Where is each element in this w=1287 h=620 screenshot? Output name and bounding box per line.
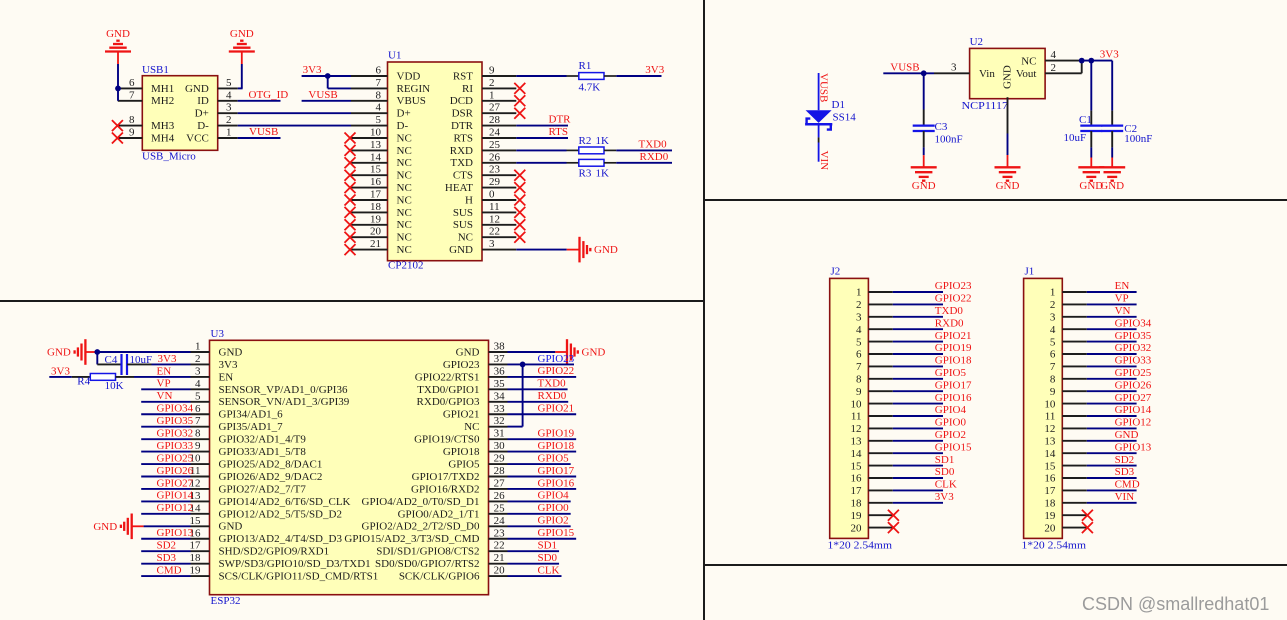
svg-text:2: 2 — [1050, 299, 1056, 311]
wire net GPIO14 to U3 pin 13 — [141, 500, 190, 502]
svg-text:DTR: DTR — [549, 114, 572, 126]
svg-text:8: 8 — [195, 428, 201, 440]
USB1 pin 7 MH2 — [118, 100, 143, 102]
svg-text:1: 1 — [856, 287, 862, 299]
svg-text:TXD0/GPIO1: TXD0/GPIO1 — [417, 384, 479, 396]
J1 pin 18 — [1062, 502, 1087, 504]
wire R4 to U3 pin3 — [134, 376, 191, 378]
wire net GPIO26 to U3 pin 11 — [141, 476, 190, 478]
USB1 pin 9 MH4 — [118, 137, 143, 139]
U1 pin 9 RST — [482, 75, 516, 77]
wire net GPIO15 from U3 pin 23 — [508, 538, 577, 540]
svg-text:R4: R4 — [77, 376, 90, 388]
svg-text:GND: GND — [219, 346, 243, 358]
U2 GND pin stub down — [1007, 97, 1009, 133]
svg-text:VUSB: VUSB — [890, 62, 919, 74]
svg-text:6: 6 — [129, 77, 135, 89]
U1 pin 14 NC — [351, 162, 388, 164]
J1 pin 4 — [1062, 328, 1087, 330]
wire net GPIO23 — [508, 363, 575, 365]
svg-text:MH3: MH3 — [151, 120, 175, 132]
wire VUSB to U2 Vin — [883, 72, 934, 74]
svg-text:SHD/SD2/GPIO9/RXD1: SHD/SD2/GPIO9/RXD1 — [219, 546, 330, 558]
wire net GPIO18 from J2 pin 7 — [893, 365, 943, 367]
svg-text:4.7K: 4.7K — [579, 82, 601, 94]
svg-text:1*20 2.54mm: 1*20 2.54mm — [828, 540, 893, 552]
J1 pin 11 — [1062, 415, 1087, 417]
U1 pin 25 RXD — [482, 149, 516, 151]
svg-text:21: 21 — [370, 238, 381, 250]
svg-text:GND: GND — [449, 244, 473, 256]
svg-text:GPIO33: GPIO33 — [157, 440, 194, 452]
resistor R1 — [567, 75, 579, 77]
wire C4 to U3 pin2 — [127, 363, 152, 365]
U3 pin 25 GPIO0/AD2_1/T1 — [489, 513, 508, 515]
wire net VP from J1 pin 2 — [1087, 303, 1137, 305]
wire net GPIO26 from J1 pin 9 — [1087, 390, 1137, 392]
no-connect X on U1 right pin 2 — [514, 83, 525, 94]
svg-text:SENSOR_VP/AD1_0/GPI36: SENSOR_VP/AD1_0/GPI36 — [219, 384, 348, 396]
wire down to C2 — [1111, 61, 1113, 111]
svg-text:GPIO16: GPIO16 — [538, 477, 575, 489]
wire net GPIO2 from J2 pin 13 — [893, 440, 943, 442]
J1 pin 14 — [1062, 452, 1087, 454]
J2 pin 11 — [868, 415, 892, 417]
U3 pin 27 GPIO16/RXD2 — [489, 488, 508, 490]
svg-text:GPIO23: GPIO23 — [935, 280, 972, 292]
U1 pin 27 DSR — [482, 112, 516, 114]
wire ground to U3 pin1 — [97, 351, 190, 353]
wire net CMD to U3 pin 19 — [141, 575, 190, 577]
svg-text:GPIO0/AD2_1/T1: GPIO0/AD2_1/T1 — [398, 508, 480, 520]
svg-text:20: 20 — [1044, 522, 1056, 534]
svg-text:16: 16 — [1044, 473, 1056, 485]
USB1 pin 6 MH1 — [118, 87, 143, 89]
wire net GPIO16 from J2 pin 10 — [893, 403, 943, 405]
wire net VN to U3 pin 5 — [141, 401, 190, 403]
svg-text:GPIO26: GPIO26 — [1115, 379, 1152, 391]
svg-text:VBUS: VBUS — [397, 95, 426, 107]
svg-text:2: 2 — [195, 353, 201, 365]
wire net GPIO17 from J2 pin 9 — [893, 390, 943, 392]
wire ground to U3 pin15 — [144, 525, 191, 527]
svg-text:17: 17 — [370, 189, 382, 201]
svg-text:GPIO0: GPIO0 — [935, 417, 967, 429]
wire net GPIO4 from J2 pin 11 — [893, 415, 943, 417]
svg-text:3V3: 3V3 — [645, 64, 664, 76]
wire VUSB to VBUS — [302, 100, 351, 102]
svg-text:5: 5 — [376, 114, 382, 126]
wire net GPIO22 from J2 pin 2 — [893, 303, 943, 305]
wire C3 to ground — [923, 131, 925, 147]
J2 pin 9 — [868, 390, 892, 392]
wire junction to REGIN — [327, 76, 329, 88]
svg-text:GPIO19: GPIO19 — [935, 342, 972, 354]
svg-text:10: 10 — [370, 127, 382, 139]
wire net SD1 from U3 pin 22 — [508, 550, 560, 552]
svg-text:6: 6 — [1050, 349, 1056, 361]
svg-text:GND: GND — [1002, 65, 1014, 89]
svg-text:GPIO12/AD2_5/T5/SD_D2: GPIO12/AD2_5/T5/SD_D2 — [219, 508, 342, 520]
U3 pin 21 SD0/SD0/GPIO7/RTS2 — [489, 563, 508, 565]
no-connect X on U1 left pin 20 — [345, 232, 356, 243]
svg-text:18: 18 — [190, 552, 202, 564]
svg-text:17: 17 — [190, 540, 202, 552]
svg-text:GPIO17: GPIO17 — [538, 465, 575, 477]
svg-text:20: 20 — [370, 226, 382, 238]
USB1 pin 4 ID — [218, 100, 238, 102]
svg-text:GPIO16: GPIO16 — [935, 392, 972, 404]
svg-text:EN: EN — [1115, 280, 1130, 292]
U1 pin 11 SUS — [482, 211, 516, 213]
wire pin5 to GND2 — [238, 87, 243, 89]
wire U2 GND to ground — [1007, 134, 1009, 156]
wire red stub to ground — [567, 249, 580, 251]
svg-text:6: 6 — [195, 403, 201, 415]
wire net CLK from U3 pin 20 — [508, 575, 562, 577]
svg-text:NC: NC — [397, 219, 412, 231]
svg-text:GPIO13: GPIO13 — [1115, 441, 1152, 453]
ground GND under U2 — [995, 166, 1021, 168]
svg-text:12: 12 — [851, 423, 862, 435]
wire 3V3 to VDD — [302, 75, 351, 77]
svg-text:32: 32 — [494, 415, 505, 427]
U3 pin 24 GPIO2/AD2_2/T2/SD_D0 — [489, 525, 508, 527]
svg-text:GPIO18: GPIO18 — [935, 355, 972, 367]
svg-text:1: 1 — [226, 127, 232, 139]
svg-text:11: 11 — [1045, 411, 1056, 423]
svg-text:GPIO14/AD2_6/T6/SD_CLK: GPIO14/AD2_6/T6/SD_CLK — [219, 496, 351, 508]
svg-text:GND: GND — [106, 28, 130, 40]
svg-text:29: 29 — [489, 176, 501, 188]
svg-text:C1: C1 — [1079, 114, 1092, 126]
svg-text:GND: GND — [582, 347, 606, 359]
svg-text:19: 19 — [851, 510, 863, 522]
J1 pin 3 — [1062, 316, 1087, 318]
svg-text:2: 2 — [489, 77, 495, 89]
svg-text:GPIO4: GPIO4 — [935, 404, 967, 416]
capacitor C4 — [120, 354, 122, 375]
svg-text:GPIO23: GPIO23 — [443, 359, 480, 371]
svg-text:SD3: SD3 — [157, 552, 177, 564]
svg-text:9: 9 — [856, 386, 862, 398]
svg-text:GPIO14: GPIO14 — [157, 490, 194, 502]
svg-text:REGIN: REGIN — [397, 83, 431, 95]
svg-text:7: 7 — [1050, 361, 1056, 373]
ground GND under C2 — [1099, 166, 1125, 168]
svg-text:SD0: SD0 — [538, 552, 558, 564]
wire net CMD from J1 pin 17 — [1087, 489, 1137, 491]
svg-text:DSR: DSR — [452, 108, 474, 120]
svg-text:9: 9 — [489, 65, 495, 77]
wire junction down to pin32 — [522, 364, 524, 426]
svg-text:8: 8 — [1050, 374, 1056, 386]
svg-text:VUSB: VUSB — [818, 73, 830, 102]
no-connect X on U1 left pin 18 — [345, 207, 356, 218]
wire net GPIO33 from J1 pin 7 — [1087, 365, 1137, 367]
U1 pin 12 SUS — [482, 224, 516, 226]
svg-text:4: 4 — [1050, 324, 1056, 336]
U3 pin 10 GPIO25/AD2_8/DAC1 — [191, 463, 210, 465]
wire net GPIO12 to U3 pin 14 — [141, 513, 190, 515]
svg-text:NC: NC — [397, 132, 412, 144]
svg-text:GPIO18: GPIO18 — [538, 440, 575, 452]
no-connect X on U1 left pin 19 — [345, 219, 356, 230]
svg-text:NC: NC — [397, 207, 412, 219]
svg-text:SS14: SS14 — [833, 112, 857, 124]
no-connect X on J1 pin 19 — [1082, 510, 1093, 521]
wire net TXD0 from J2 pin 3 — [893, 316, 943, 318]
svg-text:NC: NC — [397, 170, 412, 182]
J1 pin 6 — [1062, 353, 1087, 355]
wire net CLK from J2 pin 17 — [893, 489, 943, 491]
svg-text:5: 5 — [1050, 336, 1056, 348]
junction at C1 tap — [1088, 58, 1094, 64]
wire net GPIO12 from J1 pin 12 — [1087, 427, 1137, 429]
svg-text:7: 7 — [129, 89, 135, 101]
J1 pin 1 — [1062, 291, 1087, 293]
U1 pin 16 NC — [351, 187, 388, 189]
J1 pin 15 — [1062, 465, 1087, 467]
U3 pin 4 SENSOR_VP/AD1_0/GPI36 — [191, 388, 210, 390]
svg-text:GND: GND — [1100, 180, 1124, 192]
svg-text:GPIO21: GPIO21 — [443, 409, 480, 421]
svg-text:J1: J1 — [1025, 266, 1035, 278]
wire R1 to 3V3 — [616, 75, 661, 77]
svg-text:RXD0: RXD0 — [935, 317, 964, 329]
U3 pin 37 GPIO23 — [489, 363, 508, 365]
svg-text:0: 0 — [489, 189, 495, 201]
svg-text:SUS: SUS — [453, 219, 473, 231]
sheet border horizontal right upper — [704, 199, 1287, 201]
svg-text:NC: NC — [397, 194, 412, 206]
wire R3 to RXD0 — [616, 162, 672, 164]
J1 pin 20 — [1062, 527, 1087, 529]
svg-text:GPIO17: GPIO17 — [935, 379, 972, 391]
wire net SD3 from J1 pin 16 — [1087, 477, 1137, 479]
J2 pin 14 — [868, 452, 892, 454]
svg-text:25: 25 — [494, 502, 506, 514]
svg-text:Vin: Vin — [979, 68, 995, 80]
USB1 pin 2 D- — [218, 125, 238, 127]
wire net VIN from J1 pin 18 — [1087, 502, 1137, 504]
svg-text:U2: U2 — [970, 36, 983, 48]
wire net GPIO21 from U3 pin 33 — [508, 413, 577, 415]
svg-text:1: 1 — [195, 341, 201, 353]
svg-text:GPIO27: GPIO27 — [1115, 392, 1152, 404]
svg-text:GPIO25: GPIO25 — [157, 452, 194, 464]
sheet border vertical divider — [703, 0, 705, 620]
no-connect X on U1 left pin 14 — [345, 157, 356, 168]
svg-text:TXD0: TXD0 — [538, 378, 567, 390]
svg-text:GND: GND — [93, 521, 117, 533]
J2 pin 5 — [868, 341, 892, 343]
svg-text:GPIO13/AD2_4/T4/SD_D3: GPIO13/AD2_4/T4/SD_D3 — [219, 533, 343, 545]
svg-text:31: 31 — [494, 428, 505, 440]
wire RXD to R2 — [516, 149, 566, 151]
U1 pin 2 RI — [482, 87, 516, 89]
svg-text:17: 17 — [851, 485, 863, 497]
J2 pin 18 — [868, 502, 892, 504]
svg-text:GPIO19/CTS0: GPIO19/CTS0 — [414, 434, 480, 446]
svg-text:RXD0/GPIO3: RXD0/GPIO3 — [417, 396, 480, 408]
U3 pin 28 GPIO17/TXD2 — [489, 476, 508, 478]
svg-text:20: 20 — [851, 522, 863, 534]
svg-text:USB_Micro: USB_Micro — [142, 151, 196, 163]
wire red stub pin15 — [132, 525, 144, 527]
junction at pin6 — [115, 86, 121, 92]
svg-text:26: 26 — [489, 151, 501, 163]
svg-text:GPIO22: GPIO22 — [538, 365, 575, 377]
svg-text:VIN: VIN — [818, 151, 830, 171]
svg-text:GND: GND — [219, 521, 243, 533]
svg-text:GPIO32: GPIO32 — [1115, 342, 1152, 354]
svg-text:3: 3 — [1050, 312, 1056, 324]
svg-text:GPIO32/AD1_4/T9: GPIO32/AD1_4/T9 — [219, 434, 307, 446]
U1 pin 15 NC — [351, 174, 388, 176]
J2 pin 12 — [868, 427, 892, 429]
svg-text:CP2102: CP2102 — [388, 260, 423, 272]
U1 pin 8 VBUS — [351, 100, 388, 102]
svg-text:15: 15 — [851, 460, 863, 472]
svg-text:SD3: SD3 — [1115, 466, 1135, 478]
svg-text:NC: NC — [397, 182, 412, 194]
svg-text:4: 4 — [195, 378, 201, 390]
svg-text:3V3: 3V3 — [51, 366, 70, 378]
svg-text:1*20 2.54mm: 1*20 2.54mm — [1022, 540, 1087, 552]
J1 pin 9 — [1062, 390, 1087, 392]
no-connect X on U1 right pin 0 — [514, 195, 525, 206]
wire net GPIO0 from J2 pin 12 — [893, 427, 943, 429]
svg-text:GPIO21: GPIO21 — [538, 403, 575, 415]
wire net VN from J1 pin 3 — [1087, 316, 1137, 318]
J1 pin 2 — [1062, 303, 1087, 305]
no-connect X on J2 pin 20 — [888, 522, 899, 533]
ground GND under C1 — [1078, 166, 1104, 168]
svg-text:GND: GND — [996, 180, 1020, 192]
svg-text:VP: VP — [1115, 293, 1129, 305]
svg-text:9: 9 — [195, 440, 201, 452]
svg-text:18: 18 — [851, 498, 863, 510]
U1 pin 1 DCD — [482, 100, 516, 102]
U1 pin 28 DTR — [482, 125, 516, 127]
svg-text:11: 11 — [851, 411, 862, 423]
svg-text:NC: NC — [397, 145, 412, 157]
U3 pin 1 GND — [191, 351, 210, 353]
svg-text:GPIO4: GPIO4 — [538, 490, 570, 502]
U3 pin 34 RXD0/GPIO3 — [489, 401, 508, 403]
svg-text:VDD: VDD — [397, 70, 421, 82]
wire junction down to pin7 — [117, 88, 119, 100]
svg-text:GPIO13: GPIO13 — [157, 527, 194, 539]
svg-text:RXD: RXD — [450, 145, 473, 157]
wire net SD2 from J1 pin 15 — [1087, 465, 1137, 467]
no-connect X on U1 left pin 21 — [345, 244, 356, 255]
svg-text:13: 13 — [851, 436, 863, 448]
svg-text:R2: R2 — [579, 135, 592, 147]
junction at pin4 row — [1079, 58, 1085, 64]
svg-text:GPIO33/AD1_5/T8: GPIO33/AD1_5/T8 — [219, 446, 307, 458]
svg-text:3: 3 — [226, 102, 232, 114]
svg-text:9: 9 — [1050, 386, 1056, 398]
U1 pin 10 NC — [351, 137, 388, 139]
wire junction down to C4 row — [96, 352, 98, 364]
U2 pin 4 NC — [1045, 60, 1082, 62]
resistor R3 — [567, 162, 579, 164]
svg-text:6: 6 — [376, 65, 382, 77]
svg-text:18: 18 — [1044, 498, 1056, 510]
J1 pin 19 — [1062, 514, 1087, 516]
svg-text:29: 29 — [494, 453, 506, 465]
capacitor C2 — [1101, 124, 1123, 126]
svg-text:SUS: SUS — [453, 207, 473, 219]
svg-text:15: 15 — [370, 164, 382, 176]
U3 pin 29 GPIO5 — [489, 463, 508, 465]
svg-text:17: 17 — [1044, 485, 1056, 497]
svg-text:1: 1 — [489, 89, 495, 101]
J2 pin 7 — [868, 365, 892, 367]
svg-text:RI: RI — [462, 83, 473, 95]
wire net GPIO32 from J1 pin 6 — [1087, 353, 1137, 355]
svg-text:GPIO19: GPIO19 — [538, 427, 575, 439]
no-connect X on U1 left pin 17 — [345, 195, 356, 206]
wire net TXD0 from U3 pin 35 — [508, 388, 568, 390]
wire net GPIO23 from J2 pin 1 — [893, 291, 943, 293]
svg-text:U1: U1 — [388, 50, 401, 62]
svg-text:GPIO21: GPIO21 — [935, 330, 972, 342]
svg-text:CSDN @smallredhat01: CSDN @smallredhat01 — [1082, 594, 1269, 614]
U3 pin 8 GPIO32/AD1_4/T9 — [191, 438, 210, 440]
svg-text:GPIO15/AD2_3/T3/SD_CMD: GPIO15/AD2_3/T3/SD_CMD — [344, 533, 479, 545]
U3 pin 23 GPIO15/AD2_3/T3/SD_CMD — [489, 538, 508, 540]
svg-text:GPIO34: GPIO34 — [1115, 317, 1152, 329]
wire net GPIO13 to U3 pin 16 — [141, 538, 190, 540]
svg-text:19: 19 — [190, 565, 202, 577]
svg-text:C3: C3 — [935, 121, 948, 133]
svg-text:R3: R3 — [579, 167, 592, 179]
U1 pin 6 VDD — [351, 75, 388, 77]
svg-text:13: 13 — [1044, 436, 1056, 448]
svg-text:ESP32: ESP32 — [211, 595, 241, 607]
U2 pin 3 Vin — [934, 72, 970, 74]
U1 pin 24 RTS — [482, 137, 516, 139]
J1 pin 8 — [1062, 378, 1087, 380]
svg-text:GPIO25: GPIO25 — [1115, 367, 1152, 379]
svg-text:GPIO15: GPIO15 — [538, 527, 575, 539]
U3 pin 7 GPI35/AD1_7 — [191, 426, 210, 428]
U1 pin 13 NC — [351, 149, 388, 151]
svg-text:21: 21 — [494, 552, 505, 564]
J2 pin 4 — [868, 328, 892, 330]
svg-text:SD0: SD0 — [935, 466, 955, 478]
svg-text:VP: VP — [157, 378, 171, 390]
svg-text:RTS: RTS — [549, 126, 569, 138]
svg-text:20: 20 — [494, 565, 506, 577]
svg-text:NC: NC — [397, 244, 412, 256]
svg-text:MH1: MH1 — [151, 83, 174, 95]
svg-text:NC: NC — [397, 157, 412, 169]
svg-text:GPIO22/RTS1: GPIO22/RTS1 — [415, 371, 480, 383]
ground GND left of U3 pin1 — [84, 339, 86, 365]
connector USB1 body — [142, 76, 217, 151]
svg-text:GPIO27/AD2_7/T7: GPIO27/AD2_7/T7 — [219, 483, 307, 495]
svg-text:5: 5 — [856, 336, 862, 348]
U3 pin 11 GPIO26/AD2_9/DAC2 — [191, 476, 210, 478]
no-connect X on U1 right pin 11 — [514, 207, 525, 218]
J2 pin 3 — [868, 316, 892, 318]
wire net GPIO19 from J2 pin 6 — [893, 353, 943, 355]
U3 pin 35 TXD0/GPIO1 — [489, 388, 508, 390]
